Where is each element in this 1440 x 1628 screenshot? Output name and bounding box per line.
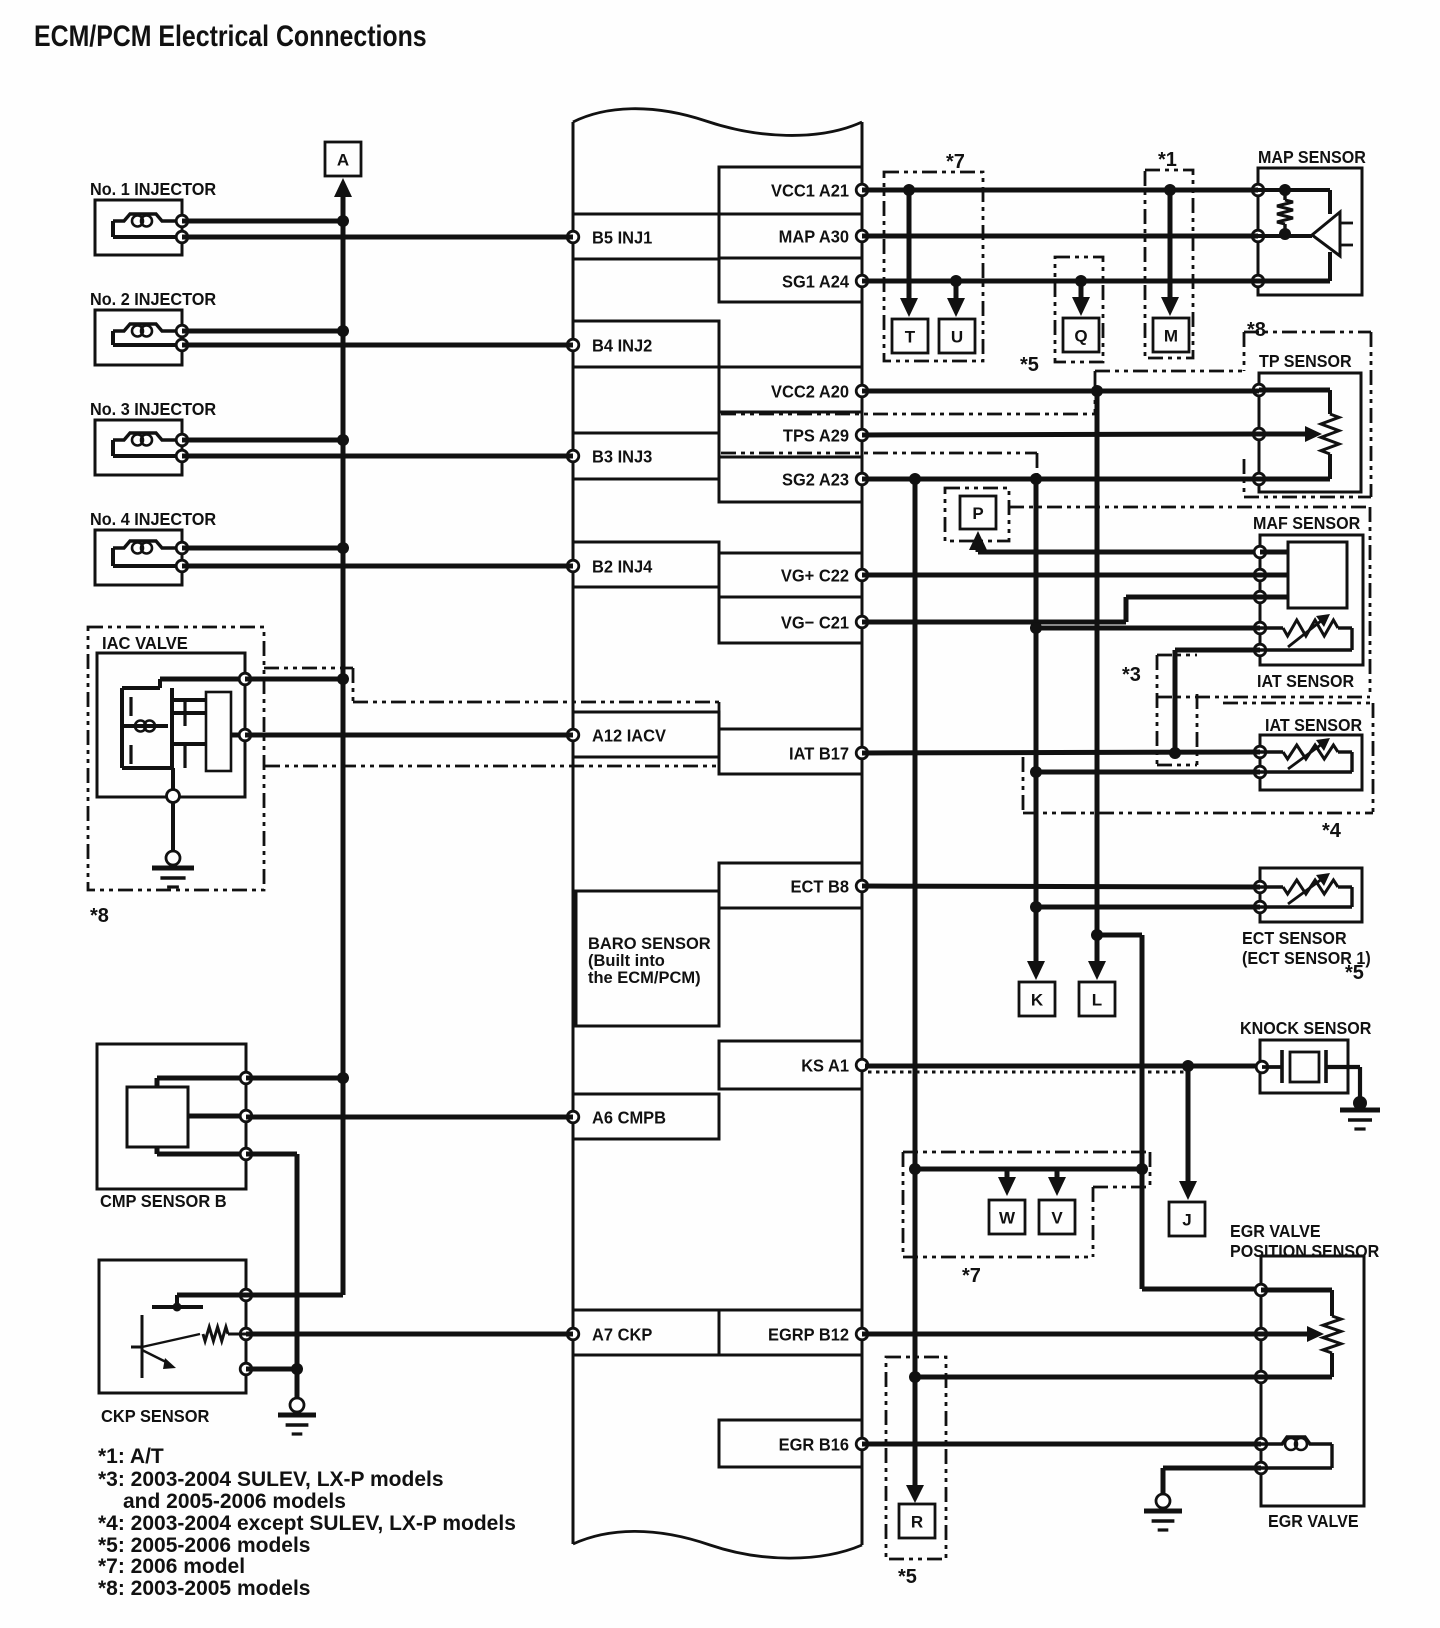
svg-text:B2 INJ4: B2 INJ4: [592, 557, 653, 577]
svg-text:*7: *7: [962, 1265, 981, 1287]
svg-text:ECM/PCM Electrical Connections: ECM/PCM Electrical Connections: [34, 19, 427, 53]
svg-text:T: T: [905, 328, 916, 347]
svg-text:ECT SENSOR: ECT SENSOR: [1242, 928, 1347, 948]
svg-text:IAT B17: IAT B17: [789, 744, 849, 764]
svg-text:W: W: [999, 1209, 1016, 1228]
svg-text:*1: *1: [1158, 149, 1177, 171]
svg-text:*8: *8: [1247, 319, 1266, 341]
svg-text:SG2 A23: SG2 A23: [782, 470, 849, 490]
svg-text:*4: 2003-2004 except SULEV, LX: *4: 2003-2004 except SULEV, LX-P models: [98, 1512, 516, 1535]
svg-text:CKP SENSOR: CKP SENSOR: [101, 1407, 209, 1427]
svg-text:B4 INJ2: B4 INJ2: [592, 336, 652, 356]
svg-text:IAT SENSOR: IAT SENSOR: [1257, 671, 1354, 691]
svg-text:K: K: [1031, 991, 1044, 1010]
svg-text:U: U: [951, 328, 963, 347]
svg-text:*5: *5: [1345, 962, 1364, 984]
svg-text:L: L: [1092, 991, 1102, 1010]
svg-text:MAP A30: MAP A30: [779, 227, 849, 247]
svg-text:IAT SENSOR: IAT SENSOR: [1265, 715, 1362, 735]
svg-text:and 2005-2006 models: and 2005-2006 models: [123, 1490, 346, 1513]
svg-text:P: P: [972, 504, 983, 523]
svg-text:IAC VALVE: IAC VALVE: [102, 632, 188, 653]
svg-text:A: A: [337, 151, 349, 170]
svg-text:*4: *4: [1322, 820, 1342, 842]
svg-text:A6 CMPB: A6 CMPB: [592, 1108, 666, 1128]
svg-text:KS A1: KS A1: [801, 1056, 849, 1076]
svg-text:*8: 2003-2005 models: *8: 2003-2005 models: [98, 1577, 310, 1600]
svg-text:No. 4 INJECTOR: No. 4 INJECTOR: [90, 509, 216, 529]
svg-text:No. 3 INJECTOR: No. 3 INJECTOR: [90, 399, 216, 419]
svg-text:ECT B8: ECT B8: [791, 877, 849, 897]
svg-text:*7: 2006 model: *7: 2006 model: [98, 1555, 245, 1578]
svg-text:MAP SENSOR: MAP SENSOR: [1258, 147, 1366, 167]
svg-text:VG− C21: VG− C21: [781, 613, 849, 633]
svg-text:No. 2 INJECTOR: No. 2 INJECTOR: [90, 289, 216, 309]
svg-text:B3 INJ3: B3 INJ3: [592, 447, 652, 467]
svg-text:V: V: [1051, 1209, 1063, 1228]
svg-text:the ECM/PCM): the ECM/PCM): [588, 968, 701, 987]
svg-text:VCC2 A20: VCC2 A20: [771, 382, 849, 402]
svg-text:VCC1 A21: VCC1 A21: [771, 181, 849, 201]
svg-text:*3: *3: [1122, 664, 1141, 686]
svg-text:*7: *7: [946, 151, 965, 173]
svg-text:*5: *5: [1020, 354, 1039, 376]
svg-text:SG1 A24: SG1 A24: [782, 272, 850, 292]
svg-text:M: M: [1164, 327, 1178, 346]
svg-text:*1: A/T: *1: A/T: [98, 1445, 164, 1468]
svg-text:No. 1 INJECTOR: No. 1 INJECTOR: [90, 179, 216, 199]
svg-text:CMP SENSOR B: CMP SENSOR B: [100, 1192, 227, 1212]
svg-text:A12 IACV: A12 IACV: [592, 726, 667, 746]
svg-text:A7 CKP: A7 CKP: [592, 1325, 652, 1345]
svg-text:R: R: [911, 1513, 923, 1532]
svg-text:*8: *8: [90, 905, 109, 927]
svg-text:KNOCK SENSOR: KNOCK SENSOR: [1240, 1018, 1371, 1038]
svg-text:TPS A29: TPS A29: [783, 426, 849, 446]
svg-text:POSITION SENSOR: POSITION SENSOR: [1230, 1241, 1379, 1261]
svg-text:*5: 2005-2006 models: *5: 2005-2006 models: [98, 1534, 310, 1557]
svg-text:*5: *5: [898, 1566, 917, 1588]
svg-text:EGR B16: EGR B16: [779, 1435, 849, 1455]
svg-text:EGRP B12: EGRP B12: [768, 1325, 849, 1345]
svg-text:B5 INJ1: B5 INJ1: [592, 228, 652, 248]
svg-text:*3: 2003-2004 SULEV, LX-P mode: *3: 2003-2004 SULEV, LX-P models: [98, 1468, 444, 1491]
svg-text:EGR VALVE: EGR VALVE: [1268, 1511, 1359, 1531]
svg-text:EGR VALVE: EGR VALVE: [1230, 1221, 1321, 1241]
svg-text:MAF SENSOR: MAF SENSOR: [1253, 513, 1360, 533]
svg-text:Q: Q: [1074, 327, 1087, 346]
svg-text:TP SENSOR: TP SENSOR: [1259, 351, 1352, 371]
svg-text:J: J: [1182, 1211, 1191, 1230]
svg-text:VG+ C22: VG+ C22: [781, 566, 849, 586]
